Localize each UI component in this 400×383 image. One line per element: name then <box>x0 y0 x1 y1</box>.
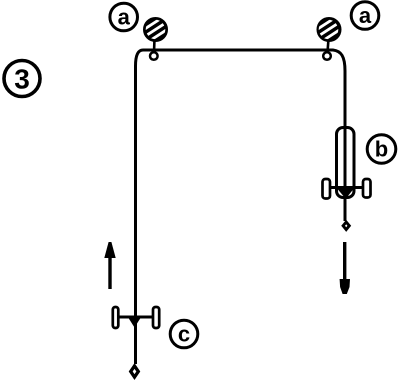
diamond b <box>343 222 349 230</box>
label a left <box>110 3 138 31</box>
rope <box>136 50 346 364</box>
toggle bar c <box>113 307 159 328</box>
arrow up <box>104 242 115 289</box>
arrow down <box>340 242 350 294</box>
descender sleeve b <box>337 128 355 199</box>
anchor bolt right (hatched) <box>318 19 340 41</box>
label c <box>170 320 198 348</box>
label 3 <box>4 61 40 97</box>
toggle bar b <box>323 179 371 199</box>
eyelet right <box>323 52 331 60</box>
svg-text:a: a <box>118 5 131 30</box>
svg-text:c: c <box>178 322 190 347</box>
svg-text:3: 3 <box>14 64 30 95</box>
anchor bolt left (hatched) <box>145 19 167 41</box>
knot c <box>129 318 141 328</box>
label b <box>367 135 396 164</box>
stem left <box>153 39 156 52</box>
label a right <box>351 2 379 30</box>
svg-text:b: b <box>375 136 388 161</box>
eyelet left <box>150 52 158 60</box>
stem right <box>328 39 329 52</box>
svg-text:a: a <box>359 3 372 28</box>
diamond c <box>131 366 139 377</box>
